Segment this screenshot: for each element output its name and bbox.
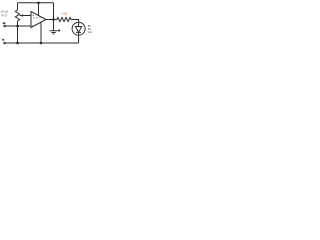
ground — [50, 31, 58, 34]
potentiometer R1 body — [15, 10, 19, 21]
terminal T1 — [4, 25, 6, 27]
diode D1 anode lead — [78, 22, 80, 26]
wire wiper to op-amp +IN — [23, 15, 31, 17]
op-amp U1 — [31, 12, 46, 28]
junction dot node A — [16, 25, 19, 28]
diode D1 cathode lead — [78, 32, 80, 35]
op-amp plus input mark — [32, 15, 34, 17]
wire pot bottom to bottom rail — [17, 21, 19, 43]
junction dot V- ground — [40, 42, 43, 45]
svg-text:POT: POT — [1, 13, 7, 17]
wire lamp to bottom rail — [78, 35, 80, 43]
label T1 — [3, 22, 6, 24]
label T2 — [2, 39, 4, 41]
label ground mark — [58, 29, 61, 32]
wire right supply vertical — [53, 3, 55, 20]
potentiometer R1 wiper arrow — [20, 15, 24, 17]
junction dot pot ground — [16, 42, 19, 45]
wire op-amp output — [46, 19, 56, 21]
wire op-amp V- pin — [40, 22, 42, 43]
svg-text:1 kΩ: 1 kΩ — [61, 12, 68, 16]
diode D1 cathode bar — [76, 31, 81, 33]
diode D1 triangle — [75, 27, 81, 33]
svg-text:mA: mA — [88, 30, 92, 34]
wire bottom rail — [6, 42, 79, 44]
lamp D1 circle — [72, 22, 85, 35]
wire output node to ground — [53, 20, 55, 31]
wire op-amp V+ pin — [38, 3, 40, 15]
terminal T2 — [4, 42, 6, 44]
op-amp minus input mark — [32, 25, 34, 27]
wire top rail — [18, 2, 54, 4]
resistor R2 — [56, 17, 71, 21]
wire R2 to lamp — [71, 20, 79, 23]
wire T1 to op-amp -IN — [6, 25, 32, 27]
junction dot output node — [52, 18, 55, 21]
junction dot supply tap — [37, 1, 40, 4]
wire left supply vertical — [17, 3, 19, 10]
svg-text:AD8613: AD8613 — [33, 16, 42, 19]
